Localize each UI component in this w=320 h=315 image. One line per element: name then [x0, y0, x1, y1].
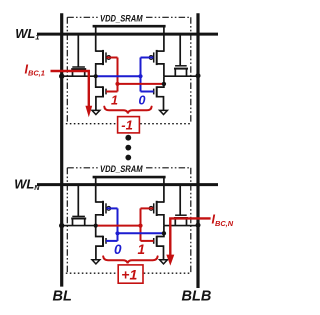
- NMOS M2R right inverter pull-down, cell 2: [154, 226, 164, 260]
- label WLN: [14, 176, 40, 192]
- upper cross-couple net (left node to right gate), cell 2: [96, 225, 141, 227]
- cell N boundary dash-dot box: [66, 168, 191, 273]
- label stored 1 cell N: [138, 242, 146, 257]
- vertical ellipsis between cells: [125, 135, 131, 161]
- junction dot upper net at right gate, cell 1: [138, 74, 142, 78]
- junction dot right storage node, cell 2: [162, 231, 166, 235]
- svg-text:BL: BL: [53, 289, 72, 305]
- current arrow I_BC,N from BLB into cell N: [166, 218, 210, 265]
- label stored 1 cell 1: [111, 93, 118, 107]
- label BL: [53, 289, 72, 305]
- label BLB: [182, 289, 212, 305]
- upper cross-couple net (left node to right gate), cell 1: [96, 75, 141, 77]
- PMOS M2R right inverter pull-up, cell 2: [149, 201, 164, 226]
- label WL1: [15, 26, 39, 42]
- svg-text:0: 0: [139, 93, 146, 107]
- wire right storage node to BLB, cell 2: [164, 225, 198, 227]
- junction dot on BLB, cell 2: [196, 223, 201, 228]
- access pass transistor right (gate on WL), cell 1: [174, 34, 188, 76]
- value box +1 for cell N: [118, 265, 143, 283]
- access pass transistor right (gate on WL), cell 2: [174, 185, 188, 226]
- right gate vertical net, cell 1: [141, 58, 154, 92]
- label I_BC,N: [212, 213, 234, 228]
- WL1 wordline: [37, 33, 218, 36]
- junction dot left storage node, cell 1: [94, 74, 98, 78]
- svg-text:VDD_SRAM: VDD_SRAM: [100, 13, 143, 24]
- NMOS M1L left inverter pull-down, cell 1: [96, 76, 106, 110]
- PMOS M1R right inverter pull-up, cell 1: [149, 50, 164, 76]
- brace under cell N node values: [103, 256, 157, 263]
- left gate vertical net, cell 2: [106, 208, 118, 241]
- junction dot left storage node, cell 2: [94, 224, 98, 228]
- junction dot on BL, cell 1: [59, 74, 64, 79]
- access pass transistor left (gate on WL), cell 2: [71, 185, 86, 226]
- VDD_SRAM power rail, cell 2: [93, 177, 166, 203]
- label stored 0 cell 1: [139, 93, 146, 107]
- label VDD_SRAM cell N: [100, 164, 143, 175]
- lower cross-couple net (right node to left gate), cell 2: [118, 232, 164, 234]
- WLN wordline: [37, 183, 218, 186]
- wire BL to left storage node, cell 2: [62, 225, 96, 227]
- NMOS M1R right inverter pull-down, cell 1: [154, 76, 164, 110]
- BLB bitline: [196, 13, 199, 288]
- wire BL to left storage node, cell 1: [62, 75, 96, 77]
- BL bitline: [60, 13, 63, 286]
- label I_BC,1: [25, 62, 45, 77]
- ground symbol left NMOS source, cell 1: [92, 110, 100, 114]
- junction dot upper net at right gate, cell 2: [138, 224, 142, 228]
- svg-text:IBC,1: IBC,1: [25, 62, 45, 77]
- cell 1 boundary dash-dot box: [66, 17, 191, 123]
- svg-text:BLB: BLB: [182, 289, 212, 305]
- wire right storage node to BLB, cell 1: [164, 75, 198, 77]
- svg-text:+1: +1: [121, 267, 137, 283]
- lower cross-couple net (right node to left gate), cell 1: [118, 83, 164, 85]
- ground symbol left NMOS source, cell 2: [92, 260, 100, 264]
- right gate vertical net, cell 2: [141, 208, 154, 241]
- svg-text:1: 1: [138, 242, 146, 257]
- junction dot right storage node, cell 1: [162, 82, 166, 86]
- svg-text:-1: -1: [121, 117, 133, 132]
- junction dot lower net at left gate, cell 2: [115, 231, 119, 235]
- ground symbol right NMOS source, cell 2: [160, 260, 168, 264]
- label stored 0 cell N: [114, 242, 122, 257]
- svg-text:0: 0: [114, 242, 122, 257]
- svg-text:IBC,N: IBC,N: [212, 213, 234, 228]
- access pass transistor left (gate on WL), cell 1: [71, 34, 86, 76]
- value box -1 for cell 1: [118, 117, 140, 133]
- junction dot on BL, cell 2: [59, 223, 64, 228]
- left gate vertical net, cell 1: [106, 58, 118, 92]
- label VDD_SRAM cell 1: [100, 13, 143, 24]
- NMOS M2L left inverter pull-down, cell 2: [96, 226, 106, 260]
- svg-text:VDD_SRAM: VDD_SRAM: [100, 164, 143, 175]
- junction dot lower net at left gate, cell 1: [115, 82, 119, 86]
- PMOS M2L left inverter pull-up, cell 2: [96, 201, 111, 226]
- svg-text:1: 1: [111, 93, 118, 107]
- svg-text:WLN: WLN: [14, 176, 40, 192]
- PMOS M1L left inverter pull-up, cell 1: [96, 50, 111, 76]
- brace under cell 1 node values: [104, 107, 151, 114]
- junction dot on BLB, cell 1: [196, 73, 201, 78]
- VDD_SRAM power rail, cell 1: [93, 26, 166, 52]
- svg-text:WL1: WL1: [15, 26, 39, 42]
- current arrow I_BC,1 from BL into cell 1: [51, 71, 93, 117]
- ground symbol right NMOS source, cell 1: [160, 110, 168, 114]
